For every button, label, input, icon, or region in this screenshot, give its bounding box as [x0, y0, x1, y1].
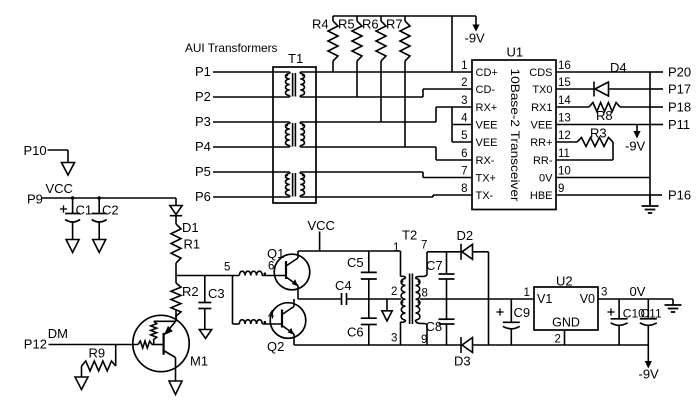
inductor winding 5-6 [239, 271, 266, 275]
svg-text:RX+: RX+ [476, 102, 498, 114]
wire U1 pin15 TX0 to D4 [556, 88, 594, 90]
svg-text:RR+: RR+ [530, 137, 552, 149]
diode D1 label [182, 220, 199, 235]
svg-text:3: 3 [601, 287, 607, 299]
wire pins 3-4-5 tie [452, 107, 472, 142]
wire right bus [649, 72, 651, 206]
svg-text:P3: P3 [195, 114, 211, 129]
svg-text:Q1: Q1 [267, 246, 284, 261]
transistor Q2 emitter [282, 326, 294, 346]
pin number 11 [558, 148, 570, 160]
transformer T1 winding 1 core [293, 73, 296, 97]
transformer T1 winding 3 primary [285, 172, 289, 197]
wire P2 to T1 [213, 96, 290, 98]
transformer T2 secondary [416, 252, 428, 345]
capacitor C6 [361, 299, 377, 345]
svg-text:-9V: -9V [625, 139, 646, 154]
capacitor C4 label [335, 278, 352, 293]
resistor R7 label [386, 17, 403, 32]
svg-text:P6: P6 [195, 189, 211, 204]
node 4 label [268, 310, 275, 322]
resistor R6 label [362, 17, 379, 32]
resistor R9 [82, 361, 116, 377]
wire D2 to corner [473, 252, 489, 345]
resistor R3 [577, 138, 613, 147]
svg-text:15: 15 [558, 77, 571, 89]
svg-text:RX1: RX1 [531, 102, 552, 114]
pin label RX- [476, 155, 495, 167]
transformer T2 pin1 label [393, 242, 399, 254]
pin number 10 [558, 166, 571, 178]
wire T1 row5 to U1 pin7 (TX+) [300, 172, 472, 178]
op-amp U1 label [507, 45, 524, 60]
svg-text:14: 14 [558, 95, 571, 107]
diode D3 label [454, 354, 471, 369]
capacitor C3 label [208, 286, 225, 301]
pin label VEE [530, 119, 552, 131]
transistor M1 collector [164, 321, 176, 335]
svg-text:6: 6 [461, 148, 467, 160]
svg-text:TX0: TX0 [532, 84, 552, 96]
node P9 [27, 192, 43, 207]
wire U1 pin14 RX1 to R8 [556, 106, 589, 108]
capacitor C2 [92, 198, 107, 240]
power -9V top arrow [472, 16, 479, 32]
wire D4 to bus [609, 88, 651, 90]
svg-text:TX-: TX- [476, 190, 494, 202]
transistor M1 circle [133, 315, 189, 371]
svg-text:11: 11 [558, 148, 570, 160]
node P16 [668, 188, 691, 203]
diode D4 [594, 82, 609, 97]
svg-text:10Base-2 Transceiver: 10Base-2 Transceiver [508, 69, 522, 202]
wire U1 pin10 0V to bus [556, 177, 650, 179]
wire AUI Transformers title [185, 41, 278, 55]
wire P10 [48, 150, 69, 163]
pin label RR+ [530, 137, 552, 149]
pin number 13 [558, 113, 571, 125]
svg-text:C2: C2 [102, 203, 119, 218]
svg-text:P17: P17 [668, 82, 691, 97]
svg-text:P4: P4 [195, 139, 211, 154]
power VCC mid label [308, 218, 335, 233]
svg-text:13: 13 [558, 113, 571, 125]
svg-text:P20: P20 [668, 65, 691, 80]
junction C1 [71, 196, 74, 199]
node DM label [48, 326, 68, 341]
wire VCC mid stub [319, 232, 321, 252]
svg-text:8: 8 [461, 183, 467, 195]
power -9V mid label [625, 139, 646, 154]
svg-text:P16: P16 [668, 188, 691, 203]
transistor M1 emitter [164, 351, 176, 382]
pin number 9 [558, 183, 564, 195]
capacitor C9 label [514, 305, 531, 320]
op-amp U2 GND [552, 316, 580, 330]
diode D1 [170, 198, 182, 224]
pin label TX0 [532, 84, 552, 96]
svg-text:V0: V0 [580, 292, 595, 306]
transistor Q1 circle [274, 254, 310, 290]
wire U1 pin16 CDS to P20 [556, 71, 650, 73]
wire P17 stub [650, 88, 663, 90]
pin number 7 [461, 166, 467, 178]
pin number 4 [461, 113, 468, 125]
wire bottom rail left [294, 344, 461, 346]
svg-text:P18: P18 [668, 100, 691, 115]
svg-text:3: 3 [461, 95, 467, 107]
pin label RR- [533, 155, 553, 167]
capacitor C8 [439, 299, 455, 345]
resistor R2 label [182, 284, 199, 299]
capacitor C10 label [623, 307, 645, 321]
svg-text:D4: D4 [610, 60, 627, 75]
diode D4 label [610, 60, 627, 75]
diode D2 [461, 244, 473, 260]
svg-text:P5: P5 [195, 164, 211, 179]
op-amp U2 box [534, 287, 598, 330]
transformer T1 label [288, 51, 303, 66]
pin label HBE [530, 190, 553, 202]
transformer T1 winding 1 secondary [300, 72, 304, 97]
svg-text:M1: M1 [190, 354, 208, 369]
svg-text:V1: V1 [537, 292, 552, 306]
svg-text:RR-: RR- [533, 155, 553, 167]
diode D2 label [457, 228, 474, 243]
wire P20 stub [650, 71, 663, 73]
node P17 [668, 82, 691, 97]
wire T1 row2 to U1 pin2 (CD-) [300, 89, 472, 97]
pin label CD+ [476, 67, 498, 79]
svg-text:5: 5 [461, 130, 467, 142]
svg-text:3: 3 [391, 333, 397, 345]
capacitor C9 plus [496, 308, 503, 315]
svg-text:HBE: HBE [530, 190, 553, 202]
wire mid row Q to C4 [298, 298, 342, 300]
ground arrow M1 [169, 381, 182, 395]
wire T1 row3 to U1 pin3 (RX+) [300, 107, 472, 122]
wire R3 to pin11 RR- [556, 142, 613, 160]
transistor M1 label [190, 354, 208, 369]
svg-text:R9: R9 [89, 346, 106, 361]
capacitor C11 label [641, 307, 662, 321]
wire P1 to T1 [213, 71, 290, 73]
svg-text:C4: C4 [335, 278, 352, 293]
transformer T1 winding 2 core [293, 123, 296, 147]
node 6 label [268, 261, 274, 273]
resistor R6 [376, 16, 386, 122]
transformer T1 winding 3 secondary [300, 172, 304, 197]
capacitor C11 [640, 299, 657, 345]
transformer T2 core [410, 274, 413, 325]
wire top rail drop to pin1 [451, 16, 453, 72]
transistor Q1 base bar [285, 261, 287, 279]
ground arrow R9 [75, 377, 88, 390]
svg-text:TX+: TX+ [476, 172, 496, 184]
ground arrow C2 [93, 240, 106, 253]
wire coil2 row [233, 323, 240, 325]
svg-text:10: 10 [558, 166, 571, 178]
resistor R4 label [312, 17, 329, 32]
wire U1 pin9 HBE to bus [556, 194, 650, 196]
wire C4 to T2 pin2 [347, 298, 402, 300]
pin number 8 [461, 183, 467, 195]
capacitor C1 plus [60, 205, 67, 212]
svg-text:4: 4 [461, 113, 468, 125]
svg-text:1: 1 [393, 242, 399, 254]
transformer T2 pin3 label [391, 333, 397, 345]
transistor Q1 emitter [286, 277, 298, 299]
node P1 [195, 64, 211, 79]
wire DM [49, 344, 139, 346]
svg-text:8: 8 [422, 288, 428, 300]
svg-text:RX-: RX- [476, 155, 495, 167]
svg-text:C8: C8 [426, 319, 443, 334]
wire T1 row4 to U1 pin6 (RX-) [300, 147, 472, 160]
node 0V label [630, 284, 646, 299]
power -9V top label [465, 31, 486, 46]
svg-text:R8: R8 [596, 108, 613, 123]
transistor Q2 circle [270, 303, 306, 339]
svg-text:R6: R6 [362, 17, 379, 32]
transistor Q2 label [267, 339, 284, 354]
resistor R7 [400, 16, 410, 147]
svg-text:Q2: Q2 [267, 339, 284, 354]
capacitor C3 [198, 276, 211, 330]
transistor Q1 label [267, 246, 284, 261]
wire node5 branch down [232, 276, 234, 325]
svg-text:P11: P11 [668, 117, 690, 132]
node P4 [195, 139, 211, 154]
wire U2 V0 row [598, 298, 673, 300]
power -9V mid arrow [633, 125, 640, 139]
node P11 [668, 117, 690, 132]
wire -9V top rail [333, 15, 476, 17]
op-amp U2 pin2 label [555, 334, 561, 346]
wire T1 row1 to U1 pin1 (CD+) [300, 71, 472, 73]
pin label CDS [529, 67, 552, 79]
pin label TX- [476, 190, 494, 202]
svg-text:R7: R7 [386, 17, 403, 32]
pin label 0V [539, 172, 553, 184]
ground 0V [665, 299, 682, 312]
capacitor C1 [65, 198, 80, 240]
op-amp U1 vertical title [508, 69, 522, 202]
svg-text:2: 2 [391, 286, 397, 298]
transformer T2 pin2 label [391, 286, 397, 298]
diode D3 [461, 337, 473, 353]
svg-text:R4: R4 [312, 17, 329, 32]
svg-text:D1: D1 [182, 220, 199, 235]
svg-text:CD-: CD- [476, 84, 496, 96]
pin number 2 [461, 77, 467, 89]
power -9V bottom label [639, 367, 660, 382]
ground arrow P10 [62, 163, 75, 176]
op-amp U2 V0 [580, 292, 595, 306]
pin label VEE [476, 137, 498, 149]
node P10 [24, 143, 47, 158]
transistor Q1 collector [286, 251, 298, 266]
wire coil to Q1 base [262, 275, 286, 277]
op-amp U2 pin3 label [601, 287, 607, 299]
wire VCC rail left [42, 197, 176, 199]
node P18 [668, 100, 691, 115]
resistor R4 [328, 16, 338, 72]
pin number 15 [558, 77, 571, 89]
wire P3 to T1 [213, 121, 290, 123]
capacitor C6 label [347, 325, 364, 340]
wire P6 to T1 [213, 196, 290, 198]
transformer T2 pin9 label [421, 334, 427, 346]
wire P5 to T1 [213, 171, 290, 173]
op-amp U2 V1 [537, 292, 552, 306]
node P20 [668, 65, 691, 80]
wire U1 pin13 VEE to bus [556, 124, 650, 126]
svg-text:CDS: CDS [529, 67, 552, 79]
wire P16 stub [650, 194, 662, 196]
transformer T2 label [402, 228, 417, 243]
wire node 5 row [176, 275, 239, 277]
capacitor C8 label [426, 319, 443, 334]
ground arrow T2 mid [382, 299, 392, 321]
svg-text:U1: U1 [507, 45, 524, 60]
svg-text:CD+: CD+ [476, 67, 498, 79]
wire P11 stub [650, 124, 663, 126]
wire P4 to T1 [213, 146, 290, 148]
svg-text:P10: P10 [24, 143, 47, 158]
capacitor C10 [611, 299, 628, 345]
svg-text:P9: P9 [27, 192, 43, 207]
pin number 3 [461, 95, 467, 107]
wire T2 pin8 row [420, 298, 534, 300]
wire T2 pin7 to D2 [427, 251, 461, 253]
svg-text:0V: 0V [539, 172, 553, 184]
svg-text:DM: DM [48, 326, 68, 341]
svg-text:AUI Transformers: AUI Transformers [185, 41, 278, 55]
resistor R8 label [596, 108, 613, 123]
inductor winding 3-4 [239, 320, 266, 324]
node P3 [195, 114, 211, 129]
transistor M1 internal resistor [151, 321, 176, 344]
svg-text:2: 2 [555, 334, 561, 346]
pin number 16 [558, 60, 571, 72]
wire R8 to bus [620, 106, 650, 108]
svg-text:1: 1 [461, 60, 467, 72]
svg-text:P2: P2 [195, 89, 211, 104]
resistor R1 label [184, 237, 201, 252]
svg-text:1: 1 [524, 287, 530, 299]
transformer T2 pin8 label [422, 288, 428, 300]
transformer T1 box [273, 67, 316, 203]
svg-text:VCC: VCC [46, 181, 73, 196]
capacitor C9 [503, 299, 520, 345]
resistor R1 [171, 224, 181, 276]
svg-text:C9: C9 [514, 305, 531, 320]
resistor R5 [352, 16, 362, 97]
transistor M1 base zigzag [138, 341, 164, 348]
transformer T2 pin7 label [421, 240, 427, 252]
power -9V bottom arrow [645, 345, 652, 369]
transistor Q2 collector [282, 299, 294, 315]
transformer T2 primary [401, 251, 406, 345]
ground right bus [642, 195, 659, 213]
wire R2 to M1 [175, 310, 177, 321]
svg-text:R1: R1 [184, 237, 201, 252]
power VCC label left [46, 181, 73, 196]
wire P18 stub [650, 106, 663, 108]
node 5 label [224, 262, 230, 274]
svg-text:C3: C3 [208, 286, 225, 301]
svg-text:VCC: VCC [308, 218, 335, 233]
capacitor C10 plus [607, 308, 614, 315]
svg-text:9: 9 [558, 183, 564, 195]
svg-text:C1: C1 [76, 203, 93, 218]
capacitor C5 label [347, 255, 364, 270]
pin label VEE [476, 119, 498, 131]
wire U1 pin12 RR+ to R3 [556, 141, 577, 143]
transistor Q2 base bar [281, 310, 283, 328]
wire R9 drop [115, 345, 117, 367]
op-amp U1 box [472, 60, 556, 210]
pin number 1 [461, 60, 467, 72]
capacitor C7 [439, 252, 455, 299]
wire coil2 to Q2 base [262, 323, 282, 325]
wire VCC top rail mid [298, 250, 401, 252]
wire D3 to -9V rail [473, 344, 649, 346]
capacitor C7 label [426, 258, 443, 273]
svg-text:VEE: VEE [476, 137, 498, 149]
svg-text:D2: D2 [457, 228, 474, 243]
pin number 12 [558, 130, 571, 142]
transformer T1 winding 1 primary [285, 72, 289, 97]
resistor R2 [171, 276, 181, 322]
svg-text:GND: GND [552, 316, 580, 330]
svg-text:0V: 0V [630, 284, 646, 299]
svg-text:2: 2 [461, 77, 467, 89]
svg-text:T1: T1 [288, 51, 303, 66]
svg-text:12: 12 [558, 130, 571, 142]
node P6 [195, 189, 211, 204]
op-amp U2 label [556, 274, 573, 289]
svg-text:T2: T2 [402, 228, 417, 243]
svg-text:16: 16 [558, 60, 571, 72]
svg-text:P12: P12 [24, 337, 47, 352]
node P12 [24, 337, 47, 352]
pin number 5 [461, 130, 467, 142]
svg-text:-9V: -9V [639, 367, 660, 382]
transformer T1 winding 3 core [293, 173, 296, 197]
capacitor C5 [361, 251, 377, 299]
capacitor C1 label [76, 203, 93, 218]
capacitor C2 label [102, 203, 119, 218]
resistor R5 label [338, 17, 355, 32]
op-amp U2 pin1 label [524, 287, 530, 299]
pin label RX1 [531, 102, 552, 114]
svg-text:R2: R2 [182, 284, 199, 299]
node P2 [195, 89, 211, 104]
transistor M1 base bar [163, 333, 165, 355]
resistor R3 label [590, 126, 607, 141]
wire U2 GND pin [564, 330, 566, 345]
svg-text:C5: C5 [347, 255, 364, 270]
svg-text:5: 5 [224, 262, 230, 274]
junction C2 [98, 196, 101, 199]
svg-text:VEE: VEE [530, 119, 552, 131]
node P5 [195, 164, 211, 179]
pin number 6 [461, 148, 467, 160]
ground arrow C3 [199, 330, 211, 339]
transformer T1 winding 2 primary [285, 122, 289, 147]
